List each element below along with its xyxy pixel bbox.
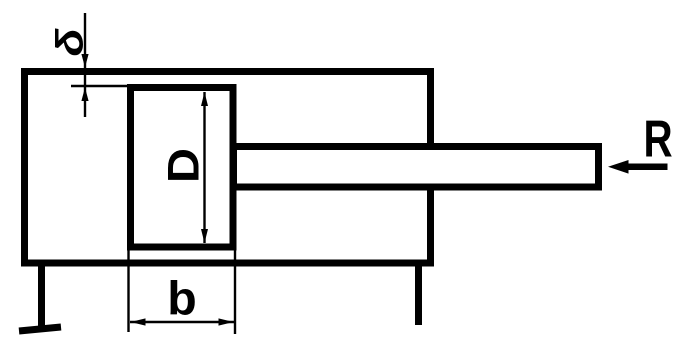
delta upper arrowhead xyxy=(81,54,88,68)
piston rod xyxy=(234,147,599,188)
svg-text:b: b xyxy=(167,273,196,325)
D label xyxy=(158,148,208,183)
cylinder body xyxy=(25,72,431,264)
b label xyxy=(167,273,196,325)
piston xyxy=(131,88,234,248)
force arrow R shaft xyxy=(627,164,668,171)
right support leg xyxy=(415,263,422,325)
svg-text:R: R xyxy=(643,110,672,168)
D upper arrowhead xyxy=(201,92,208,106)
svg-text:D: D xyxy=(158,148,208,183)
left support leg xyxy=(38,263,45,327)
b right arrowhead xyxy=(219,318,234,325)
delta dimension line xyxy=(84,13,86,117)
b right extension line xyxy=(234,250,236,334)
force label R xyxy=(643,110,672,168)
left support foot xyxy=(19,327,61,331)
D dimension line xyxy=(203,92,205,243)
delta extension line piston top xyxy=(71,85,131,87)
force arrow R head xyxy=(608,160,629,174)
delta label xyxy=(48,28,90,56)
b left extension line xyxy=(127,250,129,332)
D lower arrowhead xyxy=(201,229,208,243)
svg-text:δ: δ xyxy=(48,28,90,56)
b dimension line xyxy=(130,321,234,323)
b left arrowhead xyxy=(131,318,146,325)
delta lower arrowhead xyxy=(81,88,88,102)
